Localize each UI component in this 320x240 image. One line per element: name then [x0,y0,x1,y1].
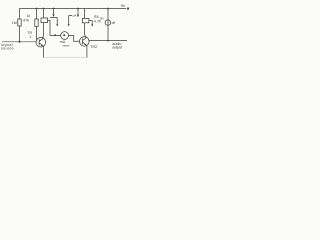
wire C1 right lead [48,20,50,35]
svg-text:meter: meter [62,44,70,48]
svg-text:off: off [112,21,116,25]
meter M1 [61,32,69,40]
node rail junction C [77,8,79,10]
wire emitter Q2 [85,45,88,58]
wire probe stub P4 [77,9,79,15]
svg-text:1k: 1k [27,14,31,18]
wire top supply rail [20,8,127,10]
svg-text:1M: 1M [12,21,17,25]
node meter tap [54,34,56,36]
node rail junction B [43,8,45,10]
wire bottom return [44,57,87,59]
arrow P2 [56,24,58,26]
arrow P5 [91,24,93,26]
svg-text:R4: R4 [94,15,99,19]
wire C2 right lead [89,21,92,25]
transistor Q2 [80,37,90,47]
wire input [2,41,36,43]
resistor R2 [35,19,38,27]
svg-text:on: on [100,17,104,21]
arrow P4 [77,15,79,18]
capacitor C1 [41,18,48,23]
transistor Q1 [36,37,46,47]
resistor R1 branch wire [19,9,21,42]
wire link bar [50,16,57,18]
lamp LP1 [105,20,110,25]
wire probe stub P2 [56,17,58,24]
node output junction [107,40,109,42]
wire probe stub P1 [53,9,55,15]
resistor R1 [18,19,21,26]
svg-text:TR2: TR2 [90,45,97,49]
svg-text:source: source [1,46,14,50]
wire collector Q1 [42,9,45,39]
wire probe stub P3 [69,16,72,25]
wire collector Q2 [85,9,86,38]
node rail junction B2 [53,8,55,10]
svg-text:1: 1 [29,35,31,39]
capacitor C2 [82,18,89,22]
arrow P1 [52,14,54,17]
svg-text:9V: 9V [121,3,126,8]
node rail junction A [36,8,38,10]
node rail junction D [107,8,109,10]
node input junction [19,41,21,43]
wire emitter Q1 [43,46,44,58]
wire right branch [107,9,109,41]
node battery terminal [127,7,129,9]
resistor R2 branch wire [36,9,38,40]
arrow P3 [68,24,70,26]
wire output [89,40,127,42]
svg-text:47k: 47k [23,19,29,23]
wire meter right to Q2 base [69,36,80,42]
wire meter left [50,35,61,37]
svg-text:output: output [112,45,122,49]
